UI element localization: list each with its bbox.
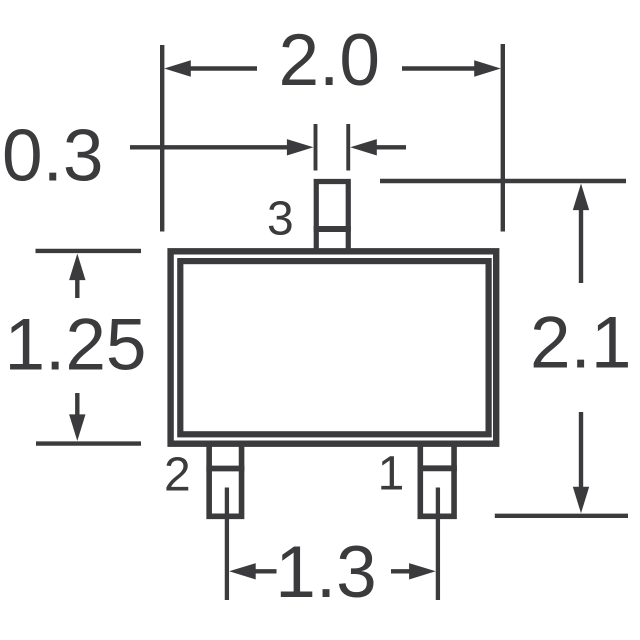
dimension 2.1 down arrow xyxy=(579,412,583,491)
dimension 1.25 bottom extension line xyxy=(36,441,141,445)
dimension 1.3 right extension centerline (pin 1) xyxy=(436,488,440,601)
svg-text:1.3: 1.3 xyxy=(275,532,376,613)
pin 1 foot crossbar xyxy=(418,465,457,471)
dimension 2.0 right extension line xyxy=(501,44,505,232)
dimension 0.3 leader line with right-pointing arrow xyxy=(130,145,293,149)
pin 1 (bottom-right lead) xyxy=(420,441,454,516)
pin 2 foot crossbar xyxy=(206,466,244,472)
dimension 1.3 right arrow xyxy=(391,569,416,573)
dimension 2.1 top extension line xyxy=(380,179,626,183)
package body inner outline xyxy=(180,261,488,434)
dimension 1.25 down arrow xyxy=(75,393,79,419)
package body outer outline xyxy=(171,251,497,443)
dimension 2.0 left arrow xyxy=(185,66,257,70)
pin 3 foot crossbar xyxy=(314,226,351,232)
dimension 0.3 left tick extension xyxy=(314,124,318,171)
svg-text:1.25: 1.25 xyxy=(4,305,146,386)
svg-text:2.0: 2.0 xyxy=(278,20,379,101)
svg-text:2.1: 2.1 xyxy=(530,303,631,384)
pin 3 (top lead) xyxy=(316,182,348,252)
dimension 1.3 left extension centerline (pin 2) xyxy=(225,488,229,601)
dimension 0.3 right arrow tail xyxy=(370,145,406,149)
dimension 2.0 right arrow xyxy=(402,66,481,70)
svg-text:3: 3 xyxy=(267,192,294,245)
dimension 2.1 up arrow xyxy=(579,205,583,283)
dimension 1.25 top extension line xyxy=(36,249,142,253)
svg-text:0.3: 0.3 xyxy=(2,115,103,196)
dimension 0.3 right tick extension xyxy=(346,124,350,171)
svg-text:1: 1 xyxy=(378,448,405,501)
svg-text:2: 2 xyxy=(164,448,191,501)
dimension 2.0 left extension line xyxy=(160,45,164,232)
dimension 2.1 bottom extension line xyxy=(495,514,628,518)
dimension 1.25 up arrow xyxy=(75,274,79,298)
dimension 1.3 left arrow xyxy=(250,569,277,573)
pin 2 (bottom-left lead) xyxy=(209,441,241,516)
